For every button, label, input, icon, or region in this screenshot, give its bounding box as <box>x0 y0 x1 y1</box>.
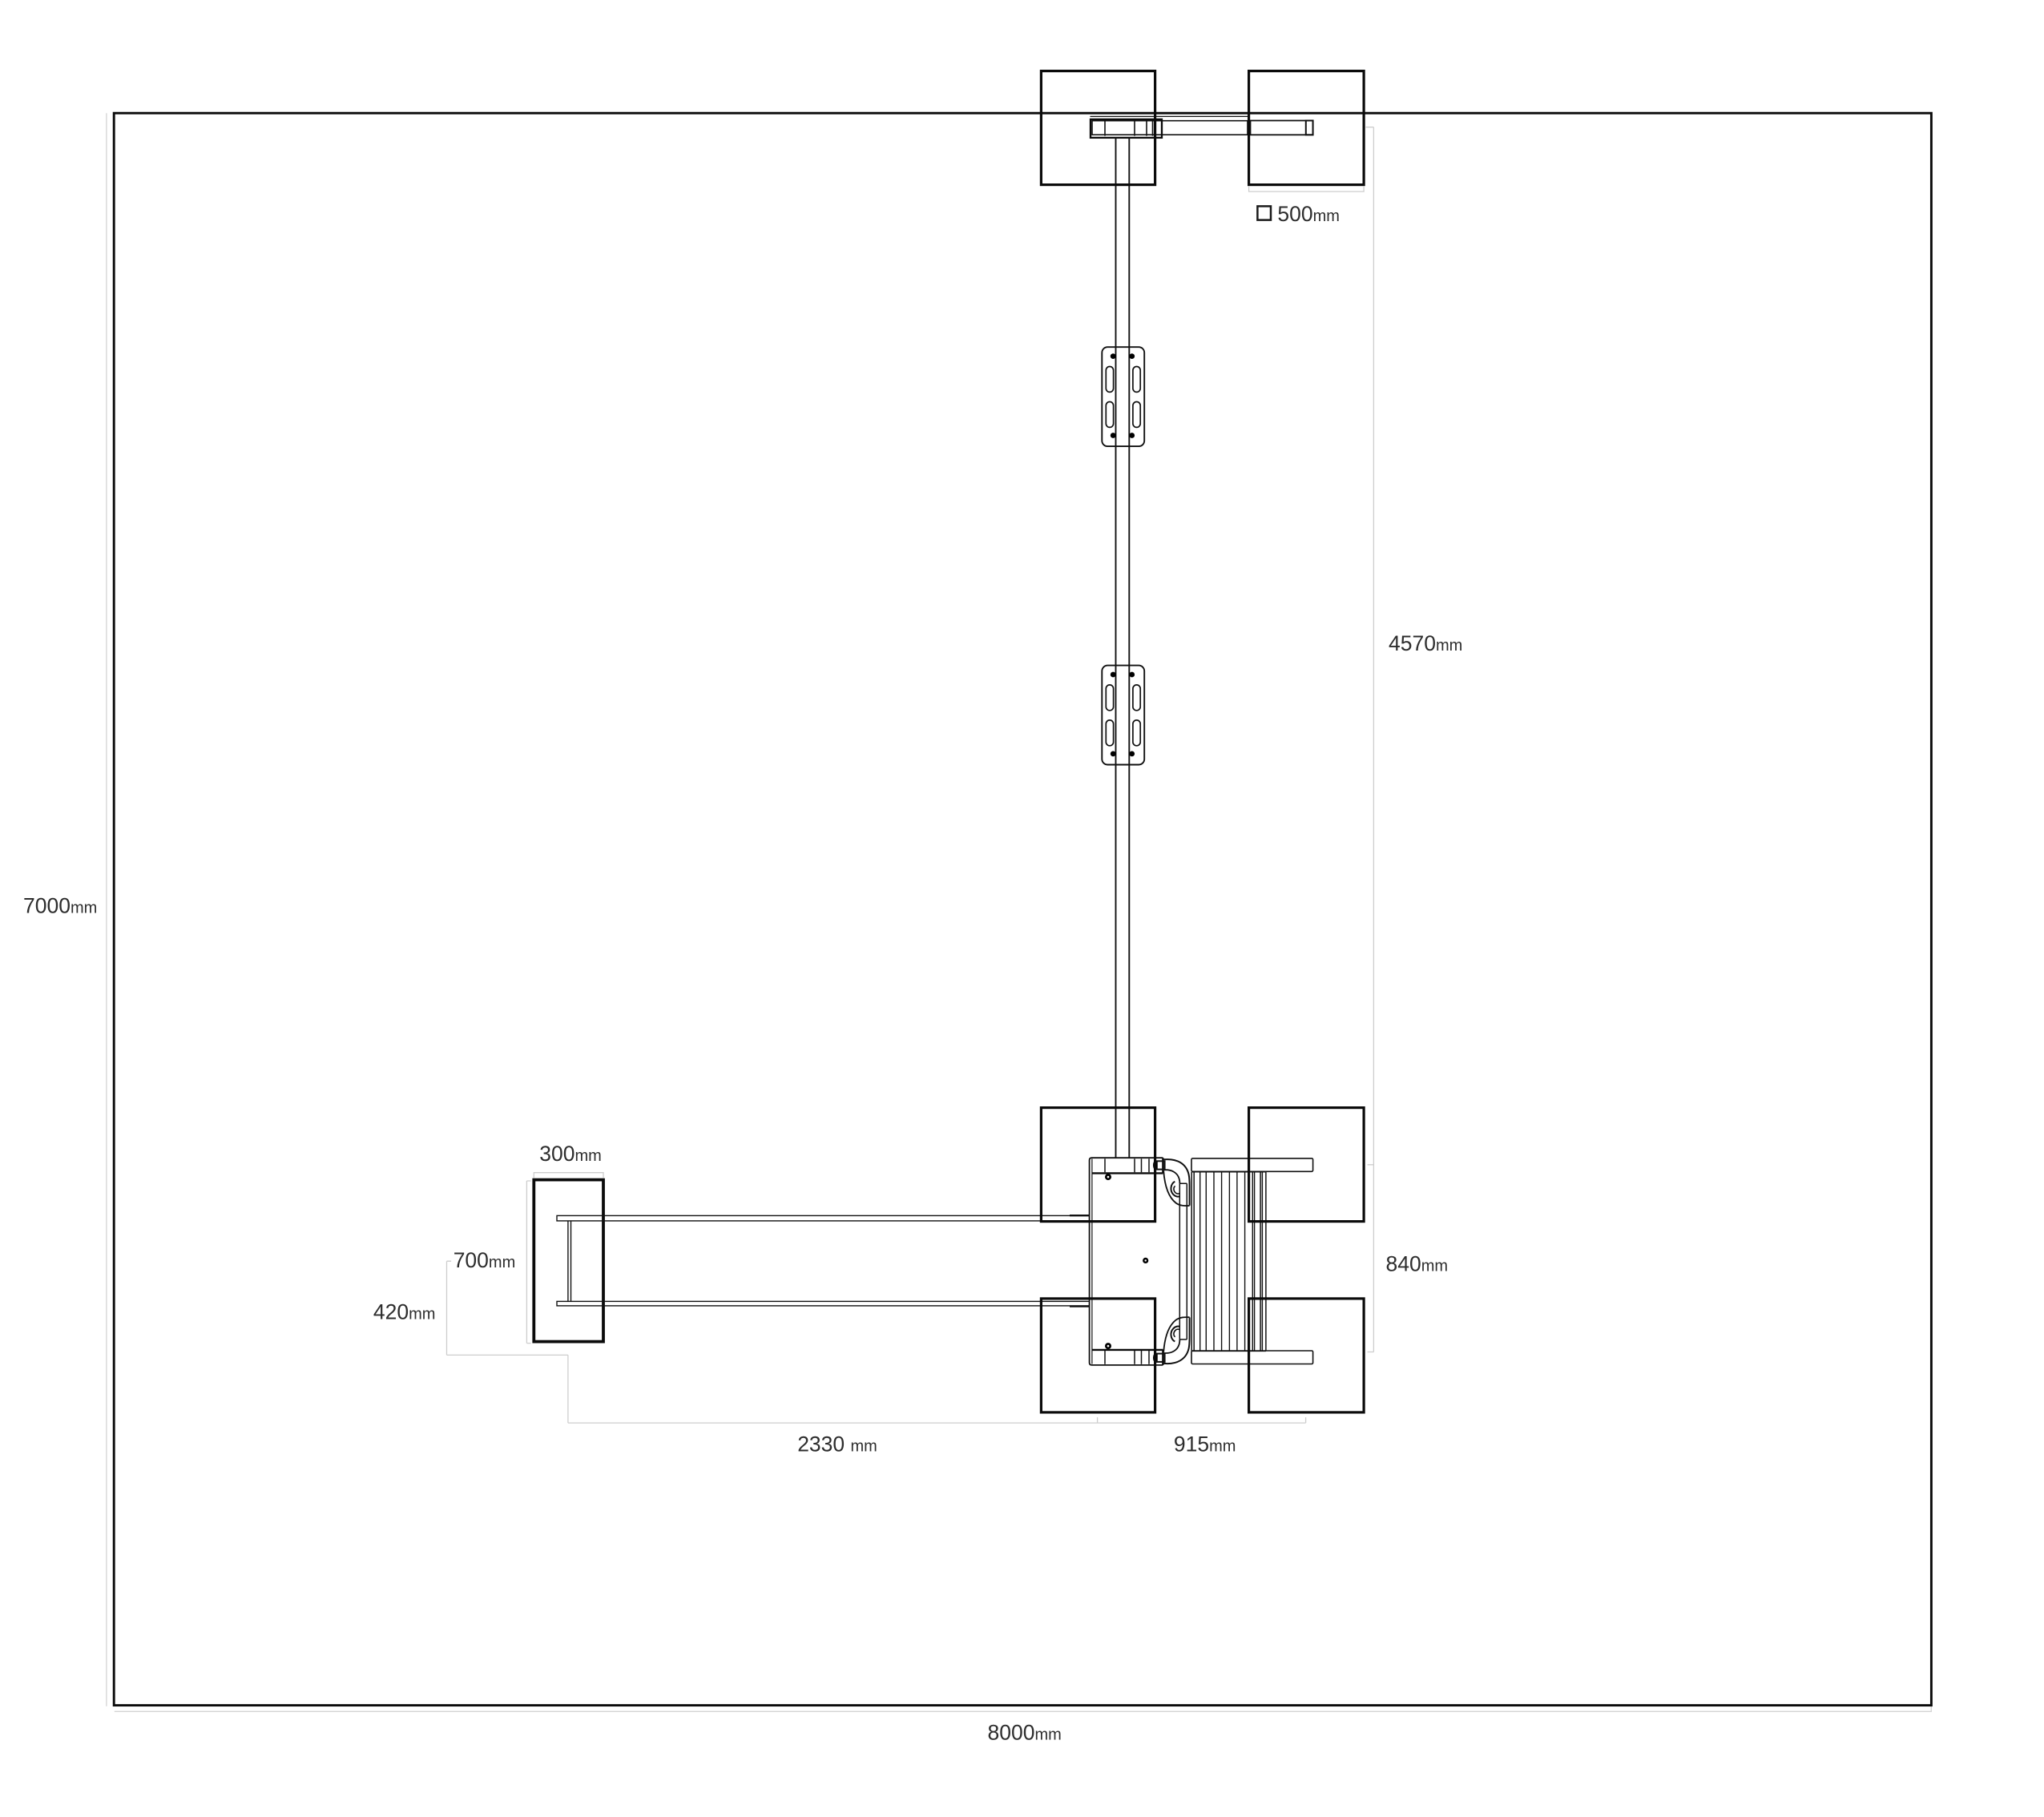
seat rail top <box>1191 1158 1313 1171</box>
top beam end cap <box>1306 121 1313 135</box>
top wall bracket dividers <box>1105 121 1153 135</box>
label square glyph 500mm <box>1257 206 1271 220</box>
footing square bottom-right-top <box>1249 1108 1365 1222</box>
seat unit top bracket bar <box>1092 1158 1163 1173</box>
top beam segment right (inside footing) <box>1251 121 1313 135</box>
clamp top <box>1157 1161 1165 1169</box>
long rail lower reinforcing edge <box>1070 1305 1090 1307</box>
rail cross connector at pad <box>568 1221 571 1301</box>
seat rail bottom <box>1191 1351 1313 1364</box>
footing square bottom-left-bottom <box>1041 1299 1155 1412</box>
dimension bracket 300mm <box>534 1173 603 1178</box>
anchor plate upper <box>1102 347 1144 446</box>
footing square top-right <box>1249 71 1365 185</box>
seat unit C-frame inner plate line <box>1091 1159 1093 1364</box>
long rail upper reinforcing edge <box>1070 1215 1090 1216</box>
seat unit bottom bracket bar <box>1092 1350 1163 1365</box>
seat unit C-frame outer <box>1090 1158 1163 1365</box>
ground pad 300x700 <box>534 1180 603 1342</box>
handle hook top <box>1163 1159 1189 1206</box>
slats <box>1200 1172 1263 1351</box>
clamp bottom <box>1157 1354 1165 1362</box>
footing square bottom-right-bottom <box>1249 1299 1365 1412</box>
bolt dot bottom bracket <box>1105 1343 1111 1349</box>
dimension line 4570mm / 840mm <box>1366 127 1374 1352</box>
long rail lower <box>557 1301 1090 1306</box>
dimension line 700mm <box>526 1181 530 1344</box>
top assembly: wall beam back line <box>1091 115 1248 117</box>
room outline 8000x7000 <box>114 113 1931 1705</box>
post (two tube lines) <box>1116 137 1130 1158</box>
long rail upper <box>557 1215 1090 1221</box>
slat bed frame <box>1191 1172 1266 1352</box>
footing square bottom-left-top <box>1041 1108 1155 1222</box>
dimension bracket 500mm <box>1249 187 1365 191</box>
dimension leader 420mm <box>447 1261 1306 1423</box>
top beam segment left <box>1092 121 1248 135</box>
anchor plate lower <box>1102 666 1144 765</box>
top wall bracket <box>1091 119 1162 138</box>
seat back tube <box>1179 1183 1187 1340</box>
handle hook bottom <box>1163 1317 1189 1364</box>
room outline shadow (gray offset) <box>107 113 1931 1711</box>
bolt dot center <box>1143 1258 1148 1263</box>
bolt dot top bracket <box>1105 1174 1111 1180</box>
footing square top-left <box>1041 71 1155 185</box>
